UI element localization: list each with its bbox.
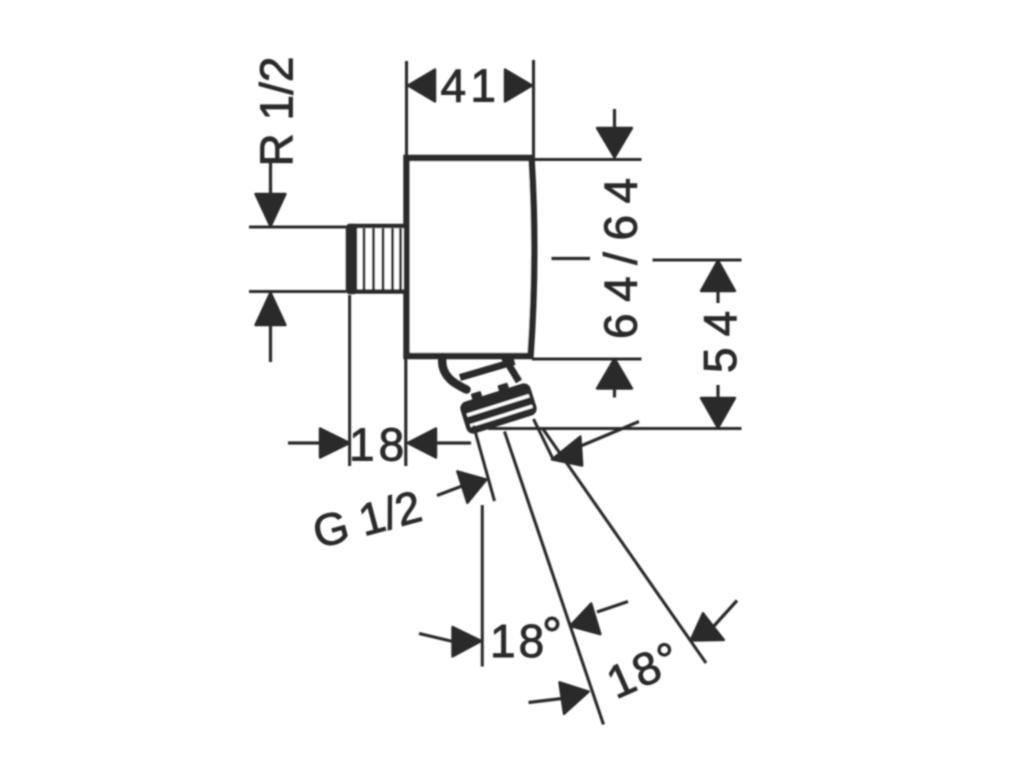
arrow tail at spout right edge [576, 422, 639, 449]
64/64 bottom arrowhead [597, 359, 632, 389]
angle 18 no.2 right arrowhead [691, 613, 724, 640]
54 bottom extension line [488, 427, 742, 430]
dimension 41 right extension line [532, 60, 535, 158]
54 down arrow stem [716, 385, 719, 398]
G 1/2 leader arrowhead [457, 471, 486, 503]
angle 18 no.1 right arrowhead [570, 604, 600, 635]
64/64 top line [532, 158, 642, 161]
thread line 3 [382, 229, 385, 290]
angle 18 no.1 right arrow tail [597, 602, 628, 613]
svg-text:G 1/2: G 1/2 [307, 480, 427, 558]
54 top extension line [653, 258, 742, 261]
thread line 4 [391, 229, 394, 290]
nipple end band [347, 225, 356, 293]
svg-text:R 1/2: R 1/2 [251, 57, 303, 167]
54 up arrowhead [701, 261, 735, 292]
svg-text:°: ° [542, 607, 562, 663]
spout neck elbow [442, 357, 466, 390]
64/64 bottom line [532, 357, 642, 360]
spout axis line 18deg [505, 432, 604, 725]
spout neck band [460, 362, 515, 378]
threaded nipple body [352, 226, 406, 292]
R 1/2 up arrowhead [256, 293, 286, 326]
spout collar nut [458, 378, 537, 434]
R 1/2 down arrowhead [256, 194, 286, 227]
18 right arrow line [436, 441, 471, 444]
wall plate (side view rectangle) [407, 158, 535, 356]
svg-text:18°: 18° [599, 630, 689, 708]
arrow at spout right edge [552, 437, 582, 466]
54 up arrow stem [716, 291, 719, 303]
angle 18 no.1 left arrowhead [453, 627, 482, 657]
svg-text:64/64: 64/64 [595, 166, 647, 339]
R 1/2 down arrow stem [269, 163, 272, 195]
18 left extension line [348, 295, 351, 466]
thread line 2 [372, 229, 375, 290]
vertical reference line [481, 505, 484, 667]
64/64 top arrow stem [613, 109, 616, 129]
spout right edge extension line [534, 419, 553, 458]
dimension 41 left extension line [405, 61, 408, 156]
svg-text:18: 18 [349, 419, 408, 471]
angle 18 no.2 right arrow tail [714, 601, 738, 627]
spout left edge extension line [474, 426, 495, 502]
svg-text:41: 41 [441, 60, 501, 112]
R 1/2 top extension line [249, 225, 346, 228]
dimension 41 left arrowhead [408, 70, 435, 102]
18 left arrow line [288, 441, 322, 444]
18 right arrowhead [408, 429, 436, 458]
angle 18 no.2 left arrow tail [529, 699, 563, 703]
dimension 41 right arrowhead [505, 70, 532, 102]
54 down arrowhead [701, 398, 735, 428]
R 1/2 up arrow stem [269, 324, 272, 362]
18 right extension line [404, 359, 407, 466]
thread line 5 [399, 229, 402, 290]
64/64 bottom arrow stem [613, 389, 616, 398]
spout neck right edge [504, 357, 519, 382]
svg-text:18: 18 [490, 615, 547, 667]
outer line 36deg [543, 429, 706, 663]
64/64 top arrowhead [597, 128, 632, 158]
angle 18 no.1 left arrow tail [419, 634, 455, 643]
svg-text:54: 54 [694, 300, 746, 373]
R 1/2 bottom extension line [249, 290, 346, 293]
angle 18 no.2 left arrowhead [559, 682, 588, 714]
64/64 center tick [552, 257, 591, 260]
18 left arrowhead [320, 429, 350, 458]
thread line 1 [363, 229, 366, 290]
G 1/2 leader line [437, 483, 470, 496]
